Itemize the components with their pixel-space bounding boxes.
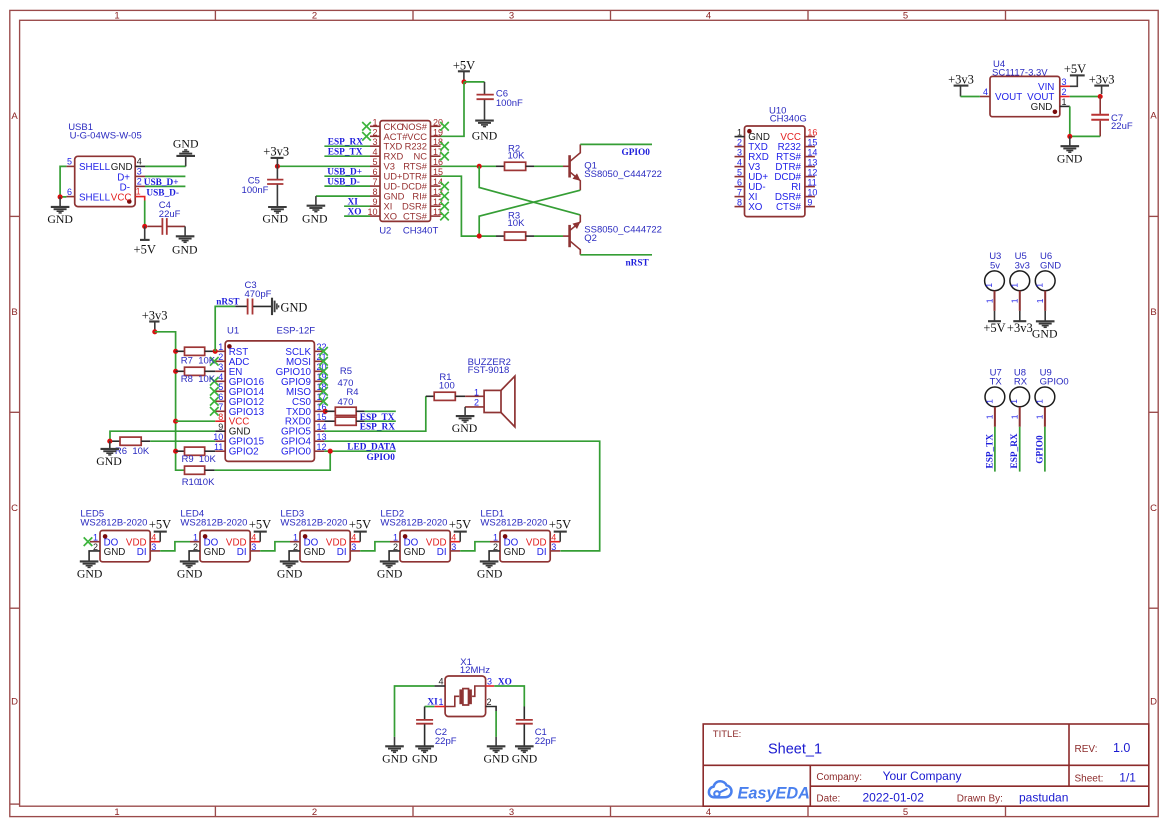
USB1 pin 6 [66,196,74,198]
wire U4 pin2 VOUT to +3v3 [1070,96,1100,98]
U1 pin stubs left [215,351,225,411]
junction rail/R9 [173,449,178,454]
wire Q1 collector GPIO0 [580,143,652,145]
ground flag at LED3 [277,561,303,580]
svg-text:2: 2 [93,542,98,552]
svg-text:470: 470 [338,397,354,408]
X1 pin 3 [486,685,495,687]
ground flag below C2 [412,746,438,765]
svg-text:100: 100 [439,380,455,391]
ground flag right-facing at C3 [272,298,279,315]
svg-text:U2: U2 [379,226,391,237]
svg-text:+5V: +5V [249,518,271,532]
IC U1 ESP-12F [210,326,328,462]
svg-text:DI: DI [437,547,447,558]
LED3 pin 1 DO [290,541,300,543]
svg-text:3: 3 [151,542,156,552]
svg-text:Date:: Date: [816,793,840,804]
svg-text:4: 4 [551,533,556,543]
wire LED5 DI chain [160,542,190,551]
ground flag below C5 [262,207,288,226]
LED LED2 WS2812B-2020 [380,509,460,562]
svg-text:WS2812B-2020: WS2812B-2020 [80,517,147,528]
svg-text:22uF: 22uF [1111,121,1133,132]
svg-text:CTS#: CTS# [403,211,428,222]
wire GPIO4 long to LED1 [324,441,599,551]
svg-text:4: 4 [251,533,256,543]
junction VCC/C4/+5V [142,224,147,229]
ground flag at USB1 shell [47,197,73,226]
svg-text:1: 1 [1035,298,1045,303]
svg-text:22pF: 22pF [535,736,557,747]
wire U2 pin7 UD- [324,185,370,187]
svg-text:GND: GND [173,136,199,150]
capacitor C7 22uF [1091,97,1133,137]
resistor R2 10K [496,143,534,170]
svg-text:USB_D+: USB_D+ [144,178,179,188]
LED3 pin 4 VDD [350,541,360,543]
svg-text:3: 3 [551,542,556,552]
svg-text:+5V: +5V [449,518,471,532]
wire USB1 pin1 VCC down to +5V junction [144,201,146,227]
svg-text:1: 1 [193,533,198,543]
LED5 pin 1 DO [90,541,100,543]
svg-text:GND: GND [472,129,498,143]
svg-text:4: 4 [706,807,711,818]
LED LED5 WS2812B-2020 [80,509,160,562]
LED1 pin 4 VDD [550,541,560,543]
wire U2 pin9 XI [344,205,370,207]
svg-text:1: 1 [1034,399,1044,404]
svg-text:2: 2 [393,542,398,552]
svg-text:1: 1 [1009,399,1019,404]
ground flag at LED5 [77,561,103,580]
LED5 pin 2 GND [89,551,100,562]
LED4 pin 3 DI [250,550,260,552]
X1 pin 2 [486,707,497,712]
svg-text:DI: DI [337,547,347,558]
U1 left pin numbers 1-11 [218,342,223,412]
junction shell/GND [58,194,63,199]
svg-text:GND: GND [512,751,538,765]
no-connect marks U1 pins 2,4,5,6,7 and 22-17 [210,357,219,366]
svg-text:1: 1 [114,807,119,818]
ground flag at LED1 [477,561,503,580]
crystal X1 12MHz [434,657,496,717]
svg-text:GND: GND [1040,260,1061,271]
svg-text:CTS#: CTS# [776,202,802,213]
resistor R1 100 [426,372,465,400]
capacitor C1 22pF [516,707,557,748]
svg-text:RX: RX [1014,377,1028,388]
svg-text:R9 10K: R9 10K [182,454,217,465]
svg-text:1: 1 [1035,414,1045,419]
svg-text:C: C [11,503,18,514]
USB1 pin 4 [135,165,145,167]
wire U2 pin4 RXD [324,155,370,157]
U2 left pin names [384,121,409,222]
LED5 pin 3 DI [150,550,160,552]
svg-text:GND: GND [177,566,203,580]
svg-text:GND: GND [262,212,288,226]
wire U2 pin10 XO [344,215,370,217]
svg-text:2: 2 [193,542,198,552]
capacitor C5 100nF [242,166,284,207]
svg-text:DI: DI [237,547,247,558]
USB1 pin 3 [135,175,145,177]
svg-text:GND: GND [1031,102,1053,113]
svg-text:GND: GND [304,547,326,558]
wire U2 pin16 RTS to R2 [441,165,497,167]
svg-text:1: 1 [393,533,398,543]
svg-text:1: 1 [493,533,498,543]
wire U2 pin6 UD+ [324,175,370,177]
svg-text:5: 5 [903,11,908,22]
wire X1 pin1 XI [425,706,435,708]
svg-text:3: 3 [451,542,456,552]
resistor R8 10K [176,367,216,385]
svg-text:GND: GND [1057,152,1083,166]
svg-text:GND: GND [404,547,426,558]
wire USB1 pin4 to ground [145,165,186,167]
svg-text:A: A [11,111,18,122]
wire nRST vertical to RST [215,306,235,351]
LED LED3 WS2812B-2020 [280,509,360,562]
junction rail/R7 [173,349,178,354]
pin header U9 GPIO0 [1034,368,1068,427]
svg-text:GND: GND [96,454,122,468]
X1 pin 1 [434,706,445,708]
wire VCC row [176,420,216,422]
wire X1 pin4 to ground [395,686,435,737]
pin header U8 RX [1009,368,1029,427]
svg-text:Your Company: Your Company [883,769,962,783]
svg-text:DI: DI [537,547,547,558]
svg-text:WS2812B-2020: WS2812B-2020 [180,517,247,528]
pin header U7 TX [984,368,1004,427]
svg-text:4: 4 [983,87,988,97]
LED4 pin 4 VDD [250,541,260,543]
svg-text:GPIO2: GPIO2 [229,447,259,458]
svg-text:GND: GND [412,751,438,765]
svg-text:B: B [1150,307,1156,318]
power flag +3v3 at ESP rail [142,308,168,332]
svg-text:10K: 10K [198,477,216,488]
LED3 pin 3 DI [350,550,360,552]
U1 pin stubs right [314,351,324,451]
X1 pin 4 [434,685,445,687]
wire +5V to C6 [464,81,485,83]
wire Q1 emitter cross to DTR node [479,190,580,236]
svg-text:4: 4 [706,11,711,22]
svg-text:3: 3 [351,542,356,552]
ground flag below X1 pin4 [382,737,408,765]
ground flag above USB1 pin4 (flipped) [173,136,199,156]
wire LED2 DI chain [460,542,490,551]
svg-text:2: 2 [312,807,317,818]
svg-text:GND: GND [172,242,198,256]
svg-text:+3v3: +3v3 [263,144,289,158]
svg-text:XO: XO [348,208,362,218]
USB1 pin 1 [135,197,145,201]
junction TXD0/R5 [323,409,328,414]
svg-text:B: B [11,307,17,318]
pin header U3 5v [984,251,1004,311]
ground flag below X1 pin2 [484,737,510,765]
svg-text:FST-9018: FST-9018 [468,365,510,376]
wire GPIO5 to buzzer R1 [324,396,425,431]
capacitor C3 470pF [235,280,272,315]
svg-text:1: 1 [136,186,141,196]
capacitor C4 22uF [147,200,185,235]
svg-text:nRST: nRST [626,258,650,268]
wire U8 to ESP_RX [1019,427,1021,472]
svg-text:ESP_TX: ESP_TX [985,434,995,469]
no-connect mark LED5 pin1 [84,537,93,546]
LED1 pin 3 DI [550,550,560,552]
no-connect marks U2 pins 1,2,20,18,17,14,13,12,11 [362,122,371,131]
LED5 pin 4 VDD [150,541,160,543]
svg-text:10K: 10K [508,151,526,162]
svg-text:1: 1 [984,399,994,404]
LED1 pin 2 GND [489,551,500,562]
svg-text:EasyEDA: EasyEDA [738,785,810,803]
svg-text:SHELL: SHELL [79,162,111,173]
svg-text:GND: GND [377,566,403,580]
svg-text:Sheet_1: Sheet_1 [768,742,822,758]
svg-text:+5V: +5V [983,321,1005,335]
LED3 pin 2 GND [289,551,300,562]
resistor R4 470 [324,387,364,425]
svg-text:XI: XI [427,697,438,707]
pin header U6 GND [1035,251,1062,311]
svg-text:3: 3 [1062,77,1067,87]
LED1 pin 1 DO [490,541,500,543]
svg-text:4: 4 [137,157,142,167]
junction GND/R6 [107,439,112,444]
svg-text:CH340T: CH340T [403,226,439,237]
svg-text:1: 1 [1035,283,1045,288]
svg-text:GND: GND [77,566,103,580]
wire USB1 pin2 D- [145,185,185,187]
transistor Q1 SS8050_C444722 [563,144,662,190]
ground flag at LED2 [377,561,403,580]
wire ESP_TX from R5 [365,410,396,412]
svg-text:1: 1 [984,298,994,303]
power flag +5V at LED3 [349,518,371,542]
svg-text:GND: GND [111,162,133,173]
svg-text:+3v3: +3v3 [1089,73,1115,87]
junction +3v3 flag/rail [152,329,157,334]
svg-text:10K: 10K [508,218,526,229]
U1 left pin names [229,347,265,418]
svg-text:SHELL: SHELL [79,192,111,203]
svg-text:REV:: REV: [1075,744,1098,755]
svg-text:ESP_RX: ESP_RX [328,138,363,148]
power flag +5V at U4 VIN [1064,62,1086,86]
svg-text:WS2812B-2020: WS2812B-2020 [380,517,447,528]
svg-text:R8 10K: R8 10K [181,374,216,385]
wire +3v3 to U4 pin4 [961,96,980,98]
LED LED1 WS2812B-2020 [480,509,560,562]
junction GND/C7 [1067,134,1072,139]
svg-text:5: 5 [67,157,72,167]
svg-text:1: 1 [93,533,98,543]
svg-text:ESP_TX: ESP_TX [328,148,363,158]
svg-text:SS8050_C444722: SS8050_C444722 [584,169,662,180]
svg-text:GND: GND [1032,326,1058,340]
svg-text:R5: R5 [340,366,352,377]
resistor R6 10K [110,437,151,457]
U1 right pin numbers 22-12 [317,342,327,452]
svg-text:GPIO0: GPIO0 [1040,377,1069,388]
power flag +5V at LED2 [449,518,471,542]
svg-text:GPIO0: GPIO0 [622,148,651,158]
power flag +5V below USB1 [134,226,156,256]
svg-text:12MHz: 12MHz [460,665,490,676]
LED2 pin 1 DO [390,541,400,543]
junction rail/R8 [173,369,178,374]
svg-text:VOUT: VOUT [995,92,1022,103]
svg-text:ESP-12F: ESP-12F [277,326,316,337]
svg-text:1: 1 [293,533,298,543]
LED LED4 WS2812B-2020 [180,509,260,562]
svg-text:2: 2 [137,177,142,187]
LED2 pin 3 DI [450,550,460,552]
U2 left pin numbers 1-10 [367,117,377,217]
wire R6 to GPIO15 [150,440,215,442]
junction R7/nRST/RST [213,349,218,354]
ground flag below U4 [1057,136,1083,165]
svg-text:USB_D-: USB_D- [146,189,179,199]
svg-text:VCC: VCC [111,192,132,203]
svg-text:GND: GND [47,212,73,226]
junction +5V/C6 [461,79,466,84]
svg-text:GND: GND [504,547,526,558]
svg-text:GND: GND [484,751,510,765]
svg-text:D: D [11,697,18,708]
wire LED4 DI chain [260,542,290,551]
resistor R7 10K [176,347,216,366]
wire X1 pin3 XO to C1 [494,686,524,707]
svg-text:GND: GND [452,421,478,435]
svg-text:U1: U1 [227,326,239,337]
svg-text:ESP_RX: ESP_RX [1010,433,1020,468]
U2 pin stubs left [370,126,380,216]
svg-text:WS2812B-2020: WS2812B-2020 [280,517,347,528]
wire Q2 collector nRST [580,254,652,256]
svg-text:GND: GND [382,751,408,765]
LED4 pin 2 GND [189,551,200,562]
wire U2 pin3 TXD [324,145,370,147]
junction GPIO0/R10 [328,449,333,454]
svg-text:3: 3 [509,11,514,22]
svg-text:3: 3 [509,807,514,818]
LED4 pin 1 DO [190,541,200,543]
U4 pin 4 [980,96,990,98]
USB1 pin 5 [66,165,74,167]
svg-text:XO: XO [384,211,398,222]
svg-text:GPIO0: GPIO0 [1035,435,1045,464]
IC U10 CH340G [735,106,818,217]
svg-text:+3v3: +3v3 [948,73,974,87]
IC U2 CH340T [362,117,449,236]
svg-text:3v3: 3v3 [1015,260,1030,271]
wire GPIO0 row [324,450,395,452]
svg-text:A: A [1150,111,1157,122]
capacitor C2 22pF [416,707,457,748]
svg-text:5v: 5v [990,260,1000,271]
wire X1 pin2 to ground [495,711,497,737]
ground flag at U2 pin8 [302,196,328,226]
buzzer BUZZER2 FST-9018 [465,357,515,427]
svg-text:2: 2 [1062,87,1067,97]
power flag +3v3 at U4 output left [948,73,974,97]
U1 right pin names [276,347,312,458]
U4 pin 1 [1060,105,1070,107]
USB connector USB1 U-G-04WS-W-05 [66,122,145,207]
svg-text:Company:: Company: [816,772,862,783]
U10 pin stubs [735,136,745,138]
ground flag below C1 [512,746,538,765]
svg-text:3: 3 [137,167,142,177]
capacitor C6 100nF [477,82,524,121]
wire U1 pin9 GND loop [110,431,215,441]
svg-text:GND: GND [104,547,126,558]
svg-text:3: 3 [487,677,492,687]
svg-text:GPIO0: GPIO0 [281,447,311,458]
svg-text:WS2812B-2020: WS2812B-2020 [480,517,547,528]
svg-text:1: 1 [1009,283,1019,288]
svg-text:2: 2 [312,11,317,22]
svg-text:USB_D-: USB_D- [327,178,360,188]
ground flag at C4 [172,226,198,256]
wire U4 pin1 GND down [1070,106,1100,136]
power flag +5V at LED4 [249,518,271,542]
svg-text:XI: XI [348,198,359,208]
wire U9 to GPIO0 [1044,427,1046,472]
svg-text:2: 2 [493,542,498,552]
resistor R9 10K [176,447,217,465]
svg-text:6: 6 [67,187,72,197]
svg-text:Sheet:: Sheet: [1075,774,1104,785]
resistor R5 470 [325,366,365,415]
svg-text:1.0: 1.0 [1113,741,1130,755]
U2 pin stubs right [431,126,441,216]
svg-text:100nF: 100nF [496,98,523,109]
svg-text:1: 1 [984,283,994,288]
svg-text:USB_D+: USB_D+ [327,168,362,178]
svg-text:GND: GND [277,566,303,580]
svg-text:2: 2 [487,697,492,707]
power flag +3v3 above C7 [1089,73,1115,94]
wire U7 to ESP_TX [994,427,996,472]
svg-text:1: 1 [474,388,479,398]
svg-text:CH340G: CH340G [770,114,807,125]
wire +5V down to U2 pin19 VCC [441,82,465,136]
U2 right pin numbers 20-11 [433,117,443,217]
svg-text:XO: XO [498,678,512,688]
ground flag at LED4 [177,561,203,580]
power flag +5V above C6 [453,59,475,82]
svg-text:2: 2 [293,542,298,552]
svg-text:+5V: +5V [349,518,371,532]
ground flag below C6 [472,121,498,143]
svg-text:+3v3: +3v3 [142,308,168,322]
svg-text:+5V: +5V [549,518,571,532]
svg-text:+3v3: +3v3 [1007,321,1033,335]
wire U2 pin5 V3 to +3v3/C5 [277,165,370,167]
